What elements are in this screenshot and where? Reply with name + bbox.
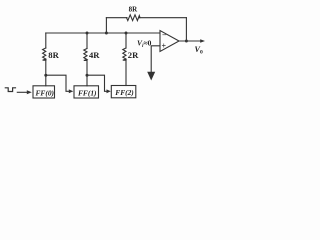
node junction dot bus/branch2 xyxy=(86,32,89,35)
flip-flop FF(2) box xyxy=(111,86,136,98)
wire branch 1 upper xyxy=(45,33,47,48)
svg-text:FF(1): FF(1) xyxy=(78,89,96,98)
node junction dot branch1 cascade tap xyxy=(44,74,47,77)
resistor R3 2R (vertical zigzag) xyxy=(123,48,126,60)
flip-flop FF(1) box xyxy=(74,86,99,98)
wire cascade FF1 to FF2 xyxy=(87,75,108,91)
wire feedback right vertical (to op-amp output) xyxy=(185,18,187,41)
svg-text:FF(2): FF(2) xyxy=(115,88,133,97)
flip-flop FF(0) box xyxy=(33,86,55,98)
wire cascade FF0 to FF1 xyxy=(46,75,70,91)
wire branch 1 lower xyxy=(45,60,47,86)
wire summing bus xyxy=(46,32,160,34)
wire feedback top right segment xyxy=(139,17,186,19)
wire input arrow line xyxy=(17,91,27,93)
node junction dot bus/branch3 xyxy=(125,32,128,35)
arrowhead output V0 xyxy=(200,39,205,43)
svg-text:Vi≈0: Vi≈0 xyxy=(137,39,152,50)
wire branch 3 upper xyxy=(125,33,127,48)
svg-text:V0: V0 xyxy=(195,45,203,56)
arrowhead cascade to FF(2) xyxy=(107,89,111,93)
svg-text:FF(0): FF(0) xyxy=(36,89,54,98)
node junction dot bus/feedback xyxy=(105,32,108,35)
resistor R1 8R (vertical zigzag) xyxy=(43,48,46,60)
wire op-amp noninverting input stub xyxy=(151,46,160,73)
wire branch 3 lower xyxy=(125,60,127,85)
svg-text:2R: 2R xyxy=(128,50,139,60)
wire branch 2 upper xyxy=(86,33,88,49)
svg-text:−: − xyxy=(162,31,167,40)
arrowhead cascade to FF(1) xyxy=(69,89,74,93)
node junction dot output/feedback xyxy=(185,40,188,43)
svg-text:8R: 8R xyxy=(48,50,59,60)
wire feedback left vertical (to summing bus) xyxy=(105,18,107,33)
input pulse waveform symbol xyxy=(5,88,15,92)
wire feedback top left segment xyxy=(106,17,127,19)
op-amp U1 triangle xyxy=(160,31,179,52)
node junction dot branch2 cascade tap xyxy=(86,74,89,77)
svg-text:4R: 4R xyxy=(89,50,100,60)
ground arrow (noninverting input to ground) xyxy=(147,72,155,81)
svg-text:8R: 8R xyxy=(129,6,139,14)
svg-text:+: + xyxy=(162,42,167,51)
resistor R2 4R (vertical zigzag) xyxy=(84,49,87,61)
resistor RF 8R (feedback, horizontal zigzag) xyxy=(127,15,141,21)
wire op-amp output xyxy=(179,40,201,42)
arrowhead input to FF(0) xyxy=(27,90,32,94)
wire branch 2 lower xyxy=(86,60,88,85)
